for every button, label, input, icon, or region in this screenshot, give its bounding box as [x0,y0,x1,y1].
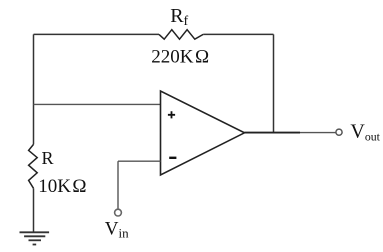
node junction noninverting [33,103,35,105]
terminal Vin [115,209,122,216]
minus input marker [169,157,176,159]
resistor R [29,144,38,188]
svg-text:R: R [42,148,54,168]
wire right vertical [273,34,275,132]
plus input marker [168,111,175,118]
wire left vertical lower [33,188,35,232]
wire output [245,132,301,134]
wire Vin vertical [117,161,119,209]
svg-text:Rf: Rf [170,5,188,29]
wire left vertical upper [33,34,35,144]
op-amp U1 [161,91,245,175]
wire output right segment [300,132,336,134]
svg-text:10KΩ: 10KΩ [38,176,86,197]
terminal Vout [336,129,342,135]
svg-text:Vout: Vout [350,120,380,143]
wire top horizontal right segment [203,33,273,35]
svg-text:220KΩ: 220KΩ [151,47,209,68]
svg-text:Vin: Vin [105,218,129,240]
wire top horizontal left segment [34,33,160,35]
resistor Rf [159,30,203,40]
wire inverting input [118,160,161,162]
wire noninverting input [34,103,161,105]
ground [20,232,50,244]
